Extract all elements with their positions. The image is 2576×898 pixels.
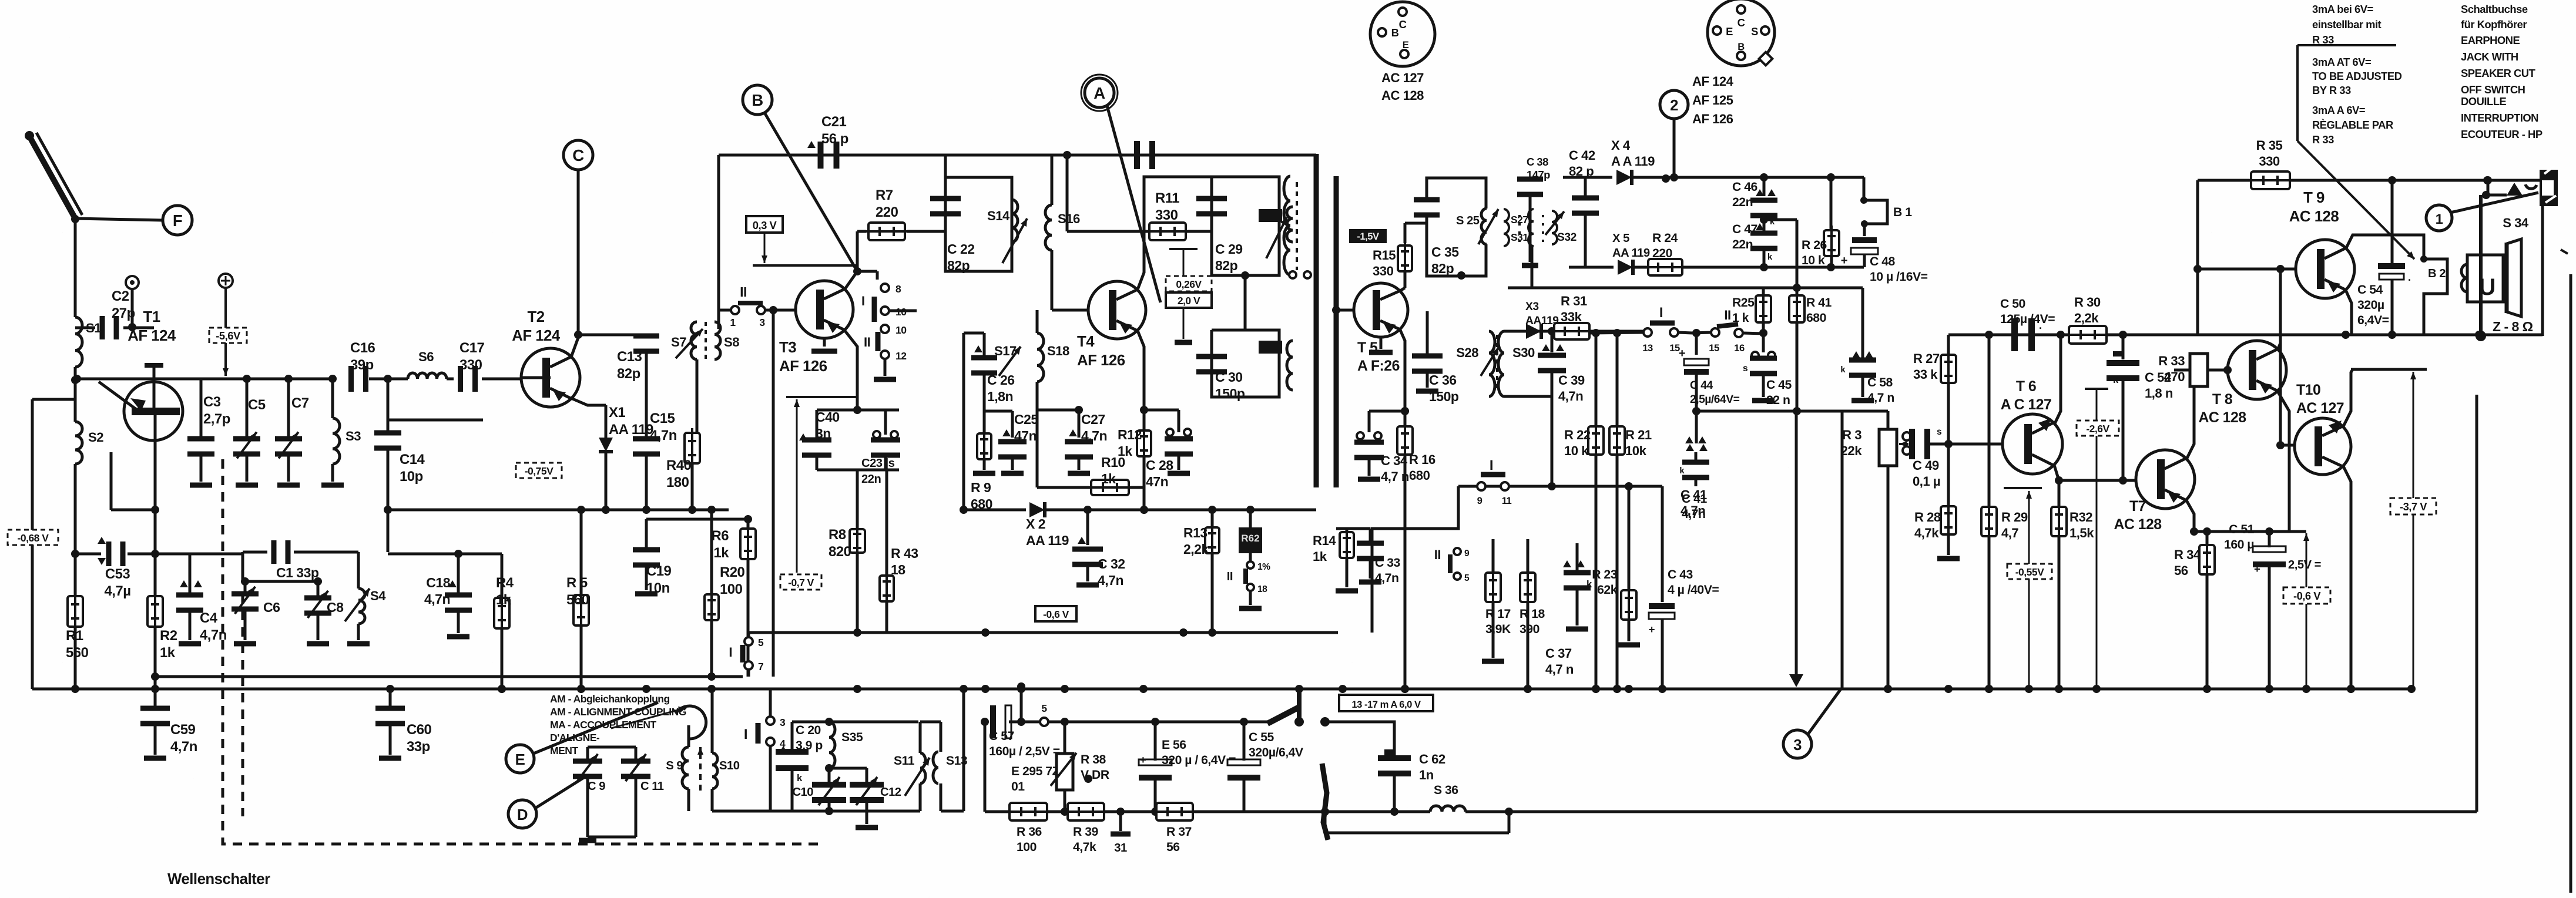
junction xyxy=(2203,685,2211,693)
junction xyxy=(151,685,159,693)
resistor R27 33k xyxy=(1913,335,1956,444)
tank C22 S14 xyxy=(930,177,1027,273)
resistor R13 2,2k xyxy=(1183,510,1219,637)
resistor R24 220 xyxy=(1643,231,1864,275)
capacitor C19 xyxy=(633,519,672,596)
capacitor C18 xyxy=(424,554,472,637)
label Z=8ohm xyxy=(2493,319,2537,335)
label T6 xyxy=(2001,379,2052,413)
capacitor C52 xyxy=(2107,335,2173,480)
capacitor C38 xyxy=(1517,156,1550,265)
wire xyxy=(111,452,159,514)
wire xyxy=(388,550,502,558)
wire base T6 xyxy=(1948,443,2003,446)
wire det 490 xyxy=(1508,246,1863,292)
label T4 xyxy=(1077,334,1125,369)
resistor R18 390 xyxy=(1520,539,1545,693)
capacitor C39 xyxy=(1538,331,1585,403)
resistor R14 1k xyxy=(1313,527,1370,591)
wire drop b xyxy=(1841,411,1844,689)
junction xyxy=(981,685,990,693)
transistor T8 AC 128 xyxy=(2228,341,2286,399)
label douille xyxy=(2461,95,2543,140)
junction xyxy=(2407,685,2416,693)
wire bus 570 xyxy=(1948,331,2543,339)
label E29577 xyxy=(1011,765,1060,793)
diode X1 AA119 xyxy=(599,405,653,514)
coil S25 sec xyxy=(1481,208,1487,244)
junction xyxy=(2055,685,2063,693)
capacitor C37 xyxy=(1545,543,1592,677)
junction xyxy=(2347,685,2355,693)
wire base T10 xyxy=(2276,269,2295,449)
wire row xyxy=(128,553,190,556)
coil S35 xyxy=(825,722,863,772)
wire emitter T10 xyxy=(2343,466,2355,693)
label Schaltbuchse xyxy=(2461,3,2528,31)
annotation diagonal xyxy=(2297,141,2414,259)
switch II pins 15 16 xyxy=(1709,308,1763,354)
capacitor C14 xyxy=(374,375,425,510)
voltage -2,6V xyxy=(2077,421,2119,436)
capacitor C25 xyxy=(998,411,1038,473)
label T3 xyxy=(779,339,827,375)
wire xyxy=(71,215,163,223)
junction xyxy=(1613,685,1621,693)
wire xyxy=(574,331,646,339)
resistor R15 330 xyxy=(1373,241,1412,288)
wire bus drop xyxy=(711,689,714,723)
ground 31 xyxy=(1111,812,1131,855)
resistor R33 470 xyxy=(2158,354,2232,386)
junction xyxy=(2302,685,2310,693)
label T10 xyxy=(2296,382,2344,416)
resistor R5 560 xyxy=(566,510,589,693)
capacitor C47 22n xyxy=(1732,220,1777,267)
transistor T7 AC 128 xyxy=(2136,450,2195,509)
wire xyxy=(388,419,483,422)
diode X2 AA119 xyxy=(964,502,1092,548)
coil S11 xyxy=(894,722,930,811)
emitter T3 wires xyxy=(811,330,861,414)
junction xyxy=(642,685,650,693)
wire sub bus xyxy=(156,675,743,678)
switch I pins 5 7 xyxy=(729,633,764,677)
label 3mA de xyxy=(2312,3,2382,46)
wire base T3 xyxy=(719,306,796,677)
measure -0,7V xyxy=(786,397,857,573)
wire row to C16 xyxy=(243,375,337,383)
tank C35 S25 xyxy=(1414,178,1498,280)
junction xyxy=(2025,685,2033,693)
transformer S27 S31 xyxy=(1504,209,1534,246)
wire s30 frame xyxy=(1504,331,1552,396)
wire s13 frame xyxy=(920,689,964,811)
resistor R9 680 xyxy=(971,411,995,512)
wire xyxy=(571,398,606,405)
speaker S34 xyxy=(2461,216,2529,317)
capacitor C33 xyxy=(1357,529,1400,585)
label T1 xyxy=(128,309,176,344)
variable C12 xyxy=(850,768,901,828)
capacitor C3 xyxy=(187,379,230,485)
wire base T4 xyxy=(1052,309,1088,312)
transistor T6 AC 127 xyxy=(2003,414,2062,474)
capacitor C59 xyxy=(140,677,197,758)
wire shield right xyxy=(1334,176,1339,487)
capacitor C53 xyxy=(75,537,155,599)
wire emitter T6 xyxy=(2054,465,2063,506)
wire osc top xyxy=(792,718,918,726)
junction xyxy=(1592,685,1600,693)
junction xyxy=(1625,685,1633,693)
capacitor C57 xyxy=(989,705,1060,758)
wire t7 em row xyxy=(2194,530,2306,533)
capacitor C2 xyxy=(75,288,154,339)
capacitor C60 xyxy=(375,685,432,758)
node 3 xyxy=(1783,689,1841,758)
wire collector T5 xyxy=(1400,223,1427,291)
coupling coils xyxy=(1284,176,1311,278)
coil S13 xyxy=(933,752,968,783)
capacitor C28 xyxy=(1144,410,1193,489)
switch II pins 9 5 xyxy=(1434,547,1470,583)
capacitor C45 xyxy=(1743,333,1792,407)
resistor R21 10k xyxy=(1609,329,1652,693)
junction xyxy=(2092,685,2101,693)
junction xyxy=(1944,685,1953,693)
resistor R10 1k xyxy=(1037,410,1144,495)
wire collector T4 xyxy=(1138,177,1212,290)
capacitor C34 xyxy=(1354,411,1409,484)
resistor R2 1k xyxy=(147,591,177,661)
power +6V xyxy=(219,274,233,376)
wire top feeds xyxy=(1492,539,1495,543)
capacitor C41 xyxy=(1681,444,1709,518)
resistor R39 4,7k xyxy=(1047,803,1155,854)
wire xyxy=(1241,271,1249,330)
junction xyxy=(577,685,585,693)
resistor R16 680 xyxy=(1369,407,1435,693)
capacitor C56 xyxy=(1139,718,1236,816)
measure arrow xyxy=(697,747,703,791)
capacitor C54 xyxy=(2357,180,2411,335)
capacitor C6 xyxy=(232,581,280,644)
voltage 0,26V 2,0V xyxy=(1166,276,1212,308)
cell S17 C26 xyxy=(964,333,1021,496)
resistor R37 56 xyxy=(1152,803,1244,854)
wire emitter T7 xyxy=(2186,500,2198,536)
resistor R4 1k xyxy=(494,554,514,693)
wire right outer xyxy=(2476,395,2478,812)
capacitor C62 xyxy=(1378,749,1445,816)
resistor R43 18 xyxy=(880,500,918,633)
capacitor C41 xyxy=(1679,411,1709,521)
wire xyxy=(817,470,899,500)
junction xyxy=(1139,685,1148,693)
junction xyxy=(1985,685,1993,693)
junction xyxy=(2265,685,2273,693)
junction xyxy=(1017,685,1025,693)
resistor R28 4,7k xyxy=(1914,444,1960,559)
diode X5 AA119 xyxy=(1569,232,1650,275)
voltage -0,55V xyxy=(2007,564,2052,579)
switch II pins 10 12 xyxy=(864,324,907,379)
earphone jack xyxy=(2525,166,2558,336)
wire collector T3 xyxy=(845,237,861,289)
transistor T9 AC 128 xyxy=(2296,240,2354,298)
wire xyxy=(190,552,243,581)
resistor R34 56 xyxy=(2174,527,2215,689)
capacitor C4 xyxy=(176,554,227,644)
wire xyxy=(241,577,320,586)
wire collector T6 xyxy=(2055,335,2061,423)
component R62 xyxy=(1239,506,1262,553)
varistor R38 VDR xyxy=(1051,722,1109,816)
potentiometer R3 22k xyxy=(1841,428,1908,693)
wire avc xyxy=(384,506,696,514)
connector B2 xyxy=(2420,255,2447,335)
capacitor C5 xyxy=(233,379,266,485)
capacitor C23 xyxy=(861,410,900,486)
junction xyxy=(1339,685,1347,693)
wire drop a xyxy=(1789,411,1803,687)
tank C29 S19 xyxy=(1196,177,1293,275)
transistor T3 AF 126 xyxy=(796,281,853,338)
capacitor C46 22n xyxy=(1732,177,1777,227)
capacitor C55 xyxy=(1227,722,1303,812)
resistor R32 1,5k xyxy=(2051,502,2094,693)
capacitor C51 xyxy=(2224,523,2321,693)
node F xyxy=(163,206,192,235)
switch I pins 13 15 xyxy=(1590,305,1711,354)
capacitor C8 xyxy=(304,577,344,644)
resistor R11 330 xyxy=(1067,155,1212,240)
wire xyxy=(1155,718,1248,726)
coil S9 xyxy=(611,706,706,789)
junction xyxy=(707,685,716,693)
wire main bus xyxy=(32,688,2411,691)
capacitor C27 xyxy=(1037,406,1107,473)
transformer S30 xyxy=(1489,331,1535,396)
wire xyxy=(71,464,79,558)
node B xyxy=(743,85,772,115)
transistor T2 AF 124 xyxy=(521,348,580,407)
capacitor C44 xyxy=(1679,333,1740,411)
capacitor C9 xyxy=(573,747,605,840)
pinout AC127 AC128 xyxy=(1370,2,1435,103)
resistor R29 4,7 xyxy=(1981,335,2028,693)
wire xyxy=(71,367,79,384)
transistor T5 AF 126 xyxy=(1332,283,1408,352)
wire xyxy=(32,399,75,689)
resistor R30 2,2k xyxy=(2064,295,2111,344)
wire r22 xyxy=(1548,396,1556,490)
capacitor C17 xyxy=(447,340,521,392)
wire xyxy=(944,155,947,177)
voltage -0,6V right xyxy=(2283,587,2330,604)
node C xyxy=(563,140,593,170)
coil S18 xyxy=(1037,310,1069,410)
coil S1 xyxy=(75,317,101,367)
wire agc takeoff xyxy=(1764,220,1797,288)
junction xyxy=(1662,174,1670,183)
voltage -0,7V xyxy=(780,574,821,590)
pinout AF124-126 xyxy=(1692,0,1775,126)
capacitor C43 xyxy=(1649,486,1719,693)
wire xyxy=(646,515,752,523)
wire c57 branch xyxy=(981,718,989,812)
resistor R8 820 xyxy=(829,500,865,637)
label T9 xyxy=(2289,190,2339,225)
voltage -3,7V xyxy=(2390,498,2436,514)
antenna xyxy=(25,131,82,218)
wire speaker feed xyxy=(2476,176,2507,341)
transistor T10 AC 127 xyxy=(2295,418,2351,475)
wire collector T8 xyxy=(2276,265,2285,349)
capacitor coupling xyxy=(1063,141,1155,169)
switch II contacts 1 3 xyxy=(730,284,765,328)
wire xyxy=(1372,486,1458,633)
annotation bracket xyxy=(2297,45,2396,141)
junction xyxy=(1524,685,1532,693)
wire osc box xyxy=(689,723,712,811)
switch I pins 8 10 xyxy=(857,271,917,322)
switch on bus xyxy=(1244,689,1330,727)
tank C36 S28 xyxy=(1412,311,1498,404)
wire collector T10 xyxy=(2343,369,2427,426)
voltage -1,5V xyxy=(1349,229,1387,243)
wire shield left xyxy=(1314,154,1319,487)
junction xyxy=(853,685,861,693)
resistor R20 100 xyxy=(705,506,745,681)
connector B1 xyxy=(1860,177,1912,227)
measure -0,6V xyxy=(2303,533,2309,689)
diode X4 AA119 xyxy=(1563,138,1864,185)
measure -3,7V xyxy=(2410,372,2416,689)
wellenschalter dashed xyxy=(223,459,818,844)
coil S2 xyxy=(75,380,103,464)
capacitor C21 56p xyxy=(807,114,848,169)
wire osc frame xyxy=(588,747,636,837)
wire collector T7 xyxy=(2187,376,2194,458)
label Wellenschalter xyxy=(167,871,270,887)
capacitor C7 xyxy=(275,379,309,485)
resistor R36 100 xyxy=(985,803,1052,854)
wire emitter T4 xyxy=(1138,331,1148,414)
wire B diag xyxy=(764,112,857,271)
resistor R22 10k xyxy=(1564,329,1604,693)
label AM coupling xyxy=(550,693,686,756)
junction xyxy=(960,685,968,693)
resistor R1 560 xyxy=(66,554,89,693)
switch pin 5 xyxy=(1021,702,1155,726)
coil S4 xyxy=(345,552,386,644)
wire mid bus xyxy=(749,628,1338,637)
switch I pins 9 11 xyxy=(1477,458,1512,506)
wire osc bottom xyxy=(712,810,920,813)
capacitor C16 xyxy=(348,340,408,392)
voltage -0,6V xyxy=(1035,606,1076,621)
voltage -0,75V xyxy=(516,463,562,478)
label 3mA fr xyxy=(2312,104,2393,146)
node 2 xyxy=(1660,90,1688,177)
capacitor C32 xyxy=(1072,510,1125,588)
capacitor C15 xyxy=(633,411,677,510)
wire t6-t7 base xyxy=(2059,476,2136,485)
wire 828 row xyxy=(1458,482,1662,490)
capacitor C42 xyxy=(1569,148,1599,267)
measure xyxy=(753,233,857,265)
capacitor C1 33p xyxy=(243,540,355,580)
resistor R41 680 xyxy=(1789,288,1832,413)
junction xyxy=(1401,685,1409,693)
coil S36 xyxy=(1325,783,1513,816)
capacitor C50 xyxy=(2000,297,2055,351)
switch II pins xyxy=(1227,553,1270,608)
wire top bus xyxy=(719,155,1316,329)
coil S16 xyxy=(1045,155,1080,310)
wire base T9 xyxy=(2193,180,2296,335)
label T7 xyxy=(2114,499,2162,533)
wire xyxy=(960,411,1012,514)
label earphone xyxy=(2461,34,2536,96)
wire xyxy=(355,510,388,552)
resistor R40 180 xyxy=(666,428,700,510)
resistor R7 220 xyxy=(857,187,944,240)
wire xyxy=(571,170,578,357)
junction xyxy=(1884,685,1892,693)
coil S6 xyxy=(408,349,447,379)
voltage -0,68V xyxy=(8,530,58,545)
wire xyxy=(151,510,159,681)
wire emitter T9 xyxy=(2346,290,2352,335)
node A xyxy=(1081,75,1118,111)
resistor R26 10k xyxy=(1802,177,1839,267)
wire right edge xyxy=(2561,250,2571,893)
resistor R35 330 xyxy=(2198,138,2543,189)
label 3mA en xyxy=(2312,56,2402,96)
measure xyxy=(1169,249,1198,342)
voltage 0,3V xyxy=(746,216,783,233)
wire xyxy=(1244,810,1325,813)
scribble xyxy=(1322,764,1328,840)
wire xyxy=(74,218,77,317)
capacitor C58 xyxy=(1840,288,1894,405)
resistor R12 1k xyxy=(1118,410,1151,514)
resistor R6 1k xyxy=(711,519,756,677)
wire r41 to r3 xyxy=(1692,407,1888,430)
wire xyxy=(73,375,247,383)
capacitor C48 xyxy=(1841,224,1928,284)
coil S10 xyxy=(712,753,740,789)
resistor R25 1k xyxy=(1732,288,1771,337)
wire emitter T5 xyxy=(1400,330,1409,415)
wire A diag xyxy=(1107,106,1160,302)
transistor T4 AF 126 xyxy=(1088,281,1146,339)
wire xyxy=(1321,722,1394,816)
transistor T1 AF 124 xyxy=(99,365,183,510)
diode X3 AA119 xyxy=(1525,301,1558,339)
wire xyxy=(1017,682,1025,722)
coil S3 xyxy=(321,379,361,485)
node E xyxy=(506,702,658,773)
voltage -5,6V xyxy=(209,328,247,343)
wire r27 up xyxy=(1947,335,1950,355)
junction xyxy=(1295,685,1303,693)
label T2 xyxy=(512,309,561,344)
jack triangle xyxy=(2507,183,2523,196)
